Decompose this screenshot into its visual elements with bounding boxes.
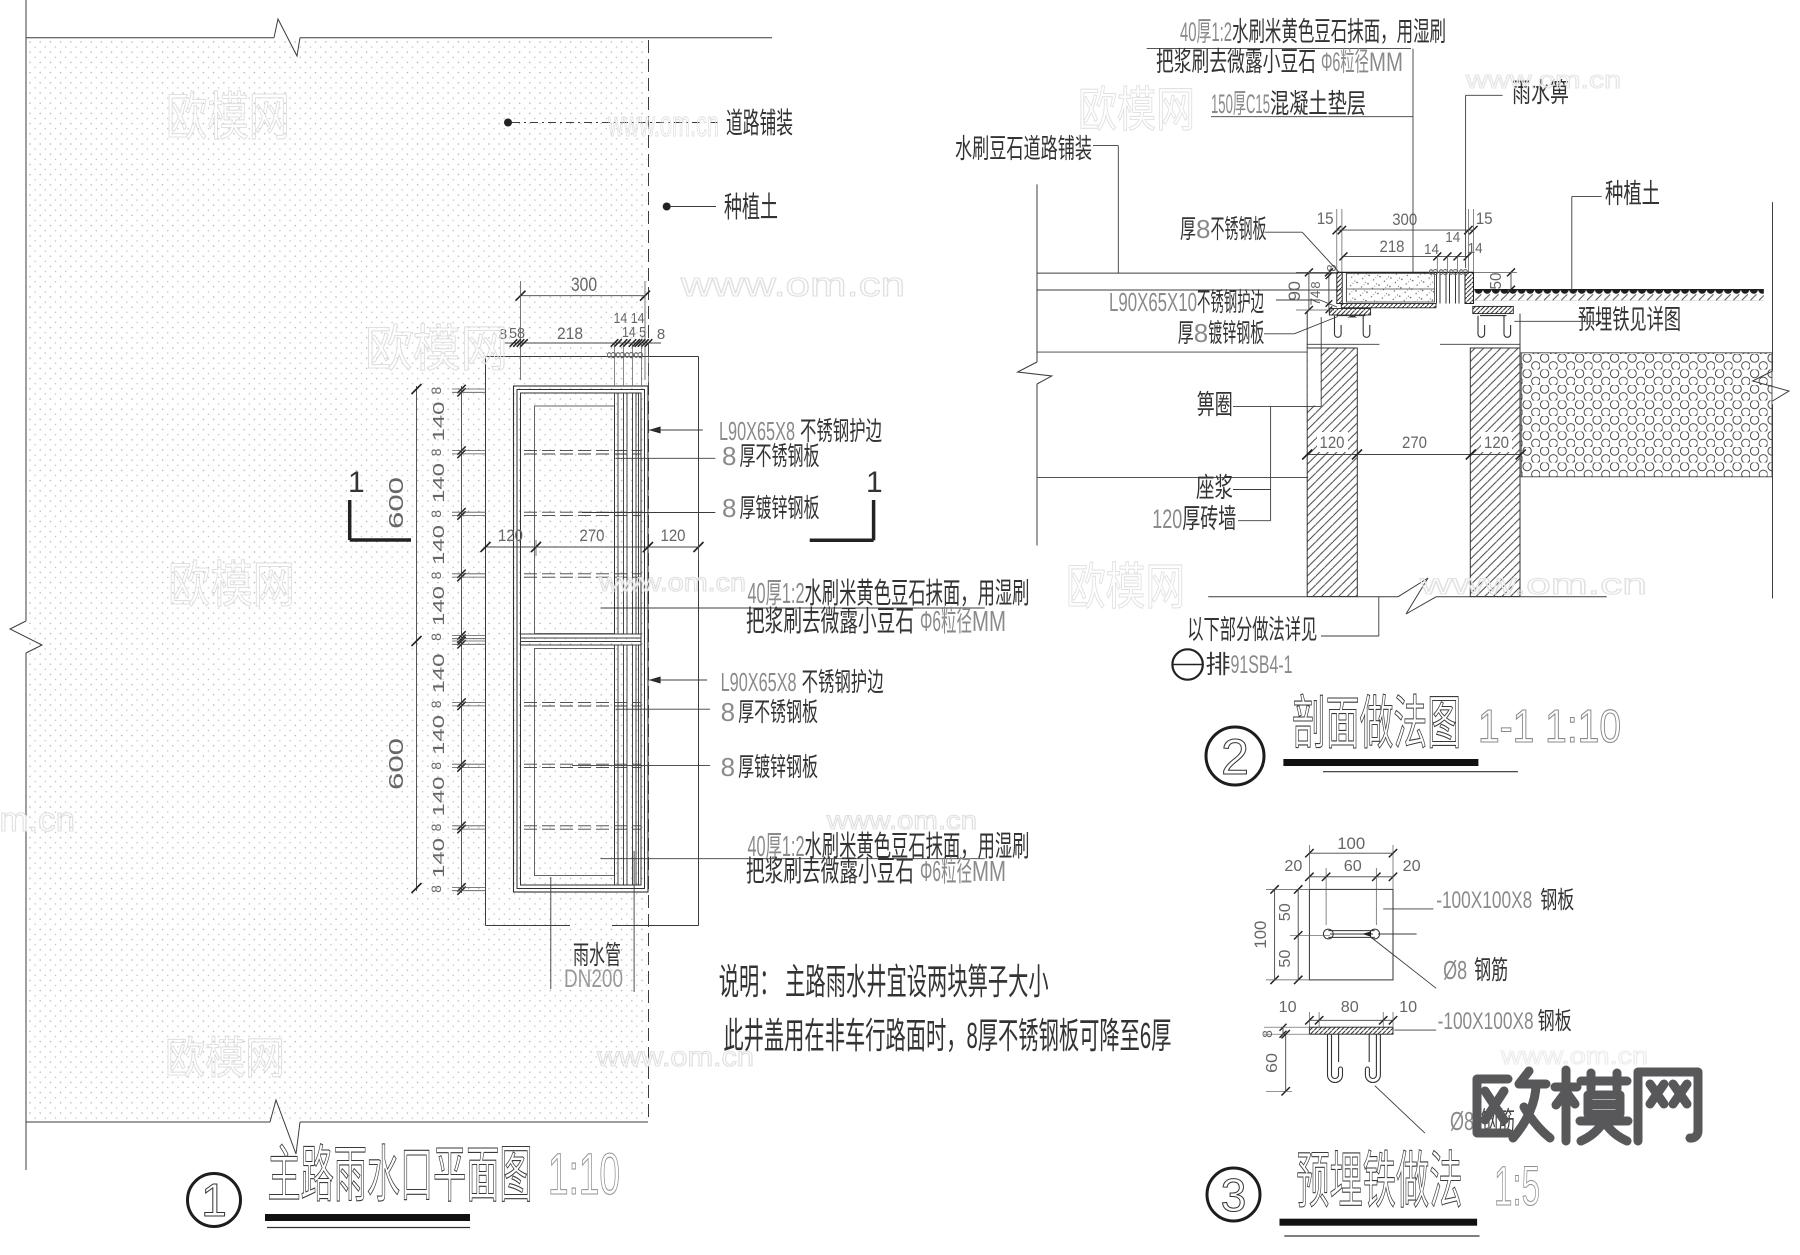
svg-text:120: 120 — [1320, 433, 1345, 452]
break on right edge — [1753, 371, 1789, 401]
brick wall right — [1470, 348, 1520, 597]
svg-text:600: 600 — [386, 477, 408, 529]
diagonal leader to phi8 label — [1372, 938, 1436, 988]
road surface line left — [1037, 272, 1337, 274]
svg-text:14: 14 — [1468, 240, 1483, 257]
chain extension marks to grate — [452, 388, 486, 390]
svg-text:-100X100X8钢板: -100X100X8钢板 — [1438, 1008, 1572, 1035]
dim chain 8/140 vertical — [461, 386, 463, 893]
svg-text:种植土: 种植土 — [1605, 179, 1660, 209]
svg-text:270: 270 — [1402, 433, 1427, 452]
grate box top edge — [1337, 271, 1474, 273]
label daolu puzhuang (road paving) — [504, 119, 512, 127]
svg-text:L90X65X10不锈钢护边: L90X65X10不锈钢护边 — [1109, 287, 1264, 317]
mortar bed level line — [1038, 477, 1309, 479]
grate bars in section — [1436, 272, 1438, 303]
detail3 plate plan square — [1309, 889, 1393, 980]
svg-text:8: 8 — [428, 386, 444, 394]
section left edge line with break — [1036, 184, 1038, 362]
svg-text:600: 600 — [386, 738, 408, 790]
svg-text:270: 270 — [580, 526, 605, 545]
svg-text:1: 1 — [866, 466, 883, 499]
svg-text:20: 20 — [1284, 858, 1302, 875]
svg-text:120厚砖墙: 120厚砖墙 — [1152, 504, 1236, 534]
planting soil stipple field — [28, 40, 647, 1120]
svg-text:厚8镀锌钢板: 厚8镀锌钢板 — [1178, 318, 1264, 348]
right seat plate — [1473, 306, 1514, 313]
crossbar hidden lines grate 2 — [524, 702, 641, 704]
svg-text:140: 140 — [431, 401, 448, 441]
svg-text:DN200: DN200 — [564, 965, 623, 993]
detail3 label plate — [1383, 908, 1433, 910]
svg-text:150厚C15混凝土垫层: 150厚C15混凝土垫层 — [1211, 89, 1366, 119]
svg-text:厚8不锈钢板: 厚8不锈钢板 — [1180, 214, 1266, 244]
break symbol on left border — [10, 621, 42, 653]
label 8 hou buxiugangban grate2 — [616, 708, 711, 710]
detail3 left dims 100 50 50 — [1274, 889, 1276, 980]
svg-text:-100X100X8钢板: -100X100X8钢板 — [1436, 887, 1574, 914]
svg-text:8: 8 — [428, 510, 444, 518]
svg-text:8: 8 — [1456, 268, 1471, 275]
svg-text:欧模网: 欧模网 — [365, 321, 508, 377]
rainwater pipe leader lines — [550, 877, 552, 989]
svg-text:剖面做法图: 剖面做法图 — [1292, 691, 1461, 756]
svg-text:8: 8 — [657, 326, 665, 343]
gravel bed (pebble fill) — [1521, 353, 1772, 477]
well outer box — [486, 356, 699, 358]
svg-text:www.om.cn: www.om.cn — [607, 103, 719, 144]
svg-text:把浆刷去微露小豆石Φ6粒径MM: 把浆刷去微露小豆石Φ6粒径MM — [746, 855, 1006, 888]
grate bars (plan, right zone) grate 2 — [614, 645, 616, 885]
svg-text:60: 60 — [1264, 1053, 1281, 1073]
svg-text:50: 50 — [1277, 903, 1294, 921]
title 1 underline — [265, 1214, 470, 1221]
svg-text:8: 8 — [428, 823, 444, 831]
dim 120/270/120 section — [1307, 454, 1521, 456]
inner opening rect grate 2 — [535, 649, 615, 876]
svg-text:140: 140 — [431, 715, 448, 755]
label zhongzhitu (planting soil) — [663, 203, 671, 211]
frame divider band between two grates — [521, 633, 642, 635]
svg-text:欧模网: 欧模网 — [1066, 559, 1185, 615]
svg-text:40厚1:2水刷米黄色豆石抹面，用湿刷: 40厚1:2水刷米黄色豆石抹面，用湿刷 — [1180, 17, 1446, 47]
label L90X65X8 grate1 — [649, 427, 661, 434]
detail3 section label plate — [1394, 1029, 1436, 1031]
label L90X65X8 grate2 — [649, 677, 661, 684]
svg-text:L90X65X8不锈钢护边: L90X65X8不锈钢护边 — [721, 667, 884, 697]
svg-text:www.om.cn: www.om.cn — [598, 567, 746, 597]
dim 300 top — [521, 295, 646, 297]
svg-text:2: 2 — [1221, 729, 1249, 785]
svg-text:140: 140 — [431, 586, 448, 626]
break symbol on top border — [274, 19, 300, 56]
svg-text:8: 8 — [428, 571, 444, 579]
planting soil surface right — [1474, 289, 1764, 291]
label 40hou mortar grate2 — [601, 858, 985, 860]
svg-text:8: 8 — [428, 448, 444, 456]
title 3 circle — [1207, 1168, 1260, 1221]
grate box: left stainless angle — [1337, 272, 1342, 303]
detail3 dim 10/80/10 — [1309, 1019, 1393, 1021]
svg-text:种植土: 种植土 — [724, 191, 778, 224]
slot (phi8 bar in plan) — [1323, 929, 1333, 939]
slot leader arrow — [1362, 931, 1371, 936]
svg-text:www.om.cn: www.om.cn — [826, 805, 977, 835]
brick wall left — [1307, 348, 1357, 597]
svg-text:排91SB4-1: 排91SB4-1 — [1206, 651, 1293, 679]
svg-text:58: 58 — [509, 325, 525, 342]
svg-text:8: 8 — [631, 351, 646, 358]
break symbol on bottom border — [270, 1100, 300, 1154]
svg-text:14: 14 — [1424, 241, 1439, 258]
left seat plate — [1329, 309, 1370, 316]
svg-text:140: 140 — [431, 525, 448, 565]
svg-text:1: 1 — [348, 466, 365, 499]
svg-text:om.cn: om.cn — [0, 801, 75, 839]
grate bars (plan, right zone) grate 1 — [614, 393, 616, 634]
label 8 hou duxin gangban grate1 — [582, 512, 715, 514]
svg-text:50: 50 — [1277, 949, 1294, 967]
svg-text:15: 15 — [1317, 209, 1334, 228]
plan bottom border line — [26, 1121, 270, 1123]
svg-text:www.om.cn: www.om.cn — [680, 266, 905, 304]
title 1 circle — [188, 1174, 241, 1227]
svg-text:74: 74 — [1307, 290, 1323, 305]
svg-text:1:10: 1:10 — [548, 1142, 620, 1207]
svg-text:218: 218 — [557, 324, 583, 343]
svg-text:www.om.cn: www.om.cn — [1419, 568, 1647, 601]
svg-text:90: 90 — [1285, 281, 1304, 301]
svg-text:50: 50 — [1488, 272, 1505, 289]
detail3 dim 100 top — [1309, 852, 1393, 854]
title 3 underline — [1280, 1219, 1478, 1226]
detail3 section: plate bar — [1309, 1027, 1393, 1034]
box bottom galvanized plate — [1341, 304, 1436, 308]
diagonal leader phi8 bottom — [1375, 1086, 1425, 1133]
svg-text:预埋铁见详图: 预埋铁见详图 — [1578, 305, 1681, 335]
svg-text:1:5: 1:5 — [1494, 1154, 1540, 1217]
svg-text:主路雨水口平面图: 主路雨水口平面图 — [268, 1141, 533, 1210]
svg-text:14: 14 — [1445, 229, 1460, 246]
svg-text:140: 140 — [431, 776, 448, 816]
detail3 dim 60 — [1285, 1034, 1287, 1091]
dim 50 right of box — [1510, 272, 1512, 289]
svg-text:水刷豆石道路铺装: 水刷豆石道路铺装 — [955, 134, 1092, 164]
dim chain 600/600 vertical — [416, 386, 418, 891]
embedded channel left — [1335, 316, 1370, 338]
detail3 U anchor channel — [1328, 1034, 1381, 1083]
label 40hou mortar grate1 — [601, 607, 985, 609]
svg-text:座浆: 座浆 — [1196, 473, 1233, 503]
embedded channel right — [1478, 316, 1511, 338]
label 8 hou buxiugangban grate1 — [615, 457, 715, 459]
svg-text:www.om.cn: www.om.cn — [1465, 67, 1621, 94]
svg-text:把浆刷去微露小豆石Φ6粒径MM: 把浆刷去微露小豆石Φ6粒径MM — [746, 605, 1006, 638]
svg-text:Ø8钢筋: Ø8钢筋 — [1443, 955, 1508, 985]
detail ref circle pai 91SB4-1 — [1172, 649, 1202, 679]
plan top border line — [26, 37, 274, 39]
svg-text:1: 1 — [201, 1174, 227, 1226]
svg-text:8: 8 — [428, 633, 444, 641]
svg-text:120: 120 — [1484, 433, 1509, 452]
svg-text:10: 10 — [1279, 999, 1297, 1016]
svg-text:3: 3 — [1221, 1169, 1247, 1221]
svg-text:14 5: 14 5 — [622, 324, 646, 341]
concrete cushion bottom line — [1037, 351, 1307, 353]
dim line 8/58/218/14s top — [505, 342, 661, 344]
label 8 hou duxin gangban grate2 — [572, 765, 710, 767]
grate seat ring edges — [1306, 311, 1308, 348]
big logo OUMOWANG bottom right — [1477, 1070, 1698, 1141]
svg-text:300: 300 — [571, 275, 597, 296]
svg-text:把浆刷去微露小豆石Φ6粒径MM: 把浆刷去微露小豆石Φ6粒径MM — [1156, 47, 1403, 77]
svg-text:1-1 1:10: 1-1 1:10 — [1478, 700, 1621, 752]
inner opening rect grate 1 — [535, 406, 615, 634]
mortar fill in grate box — [1346, 273, 1434, 302]
svg-text:道路铺装: 道路铺装 — [726, 107, 793, 140]
svg-text:8: 8 — [1308, 281, 1323, 288]
svg-text:欧模网: 欧模网 — [168, 557, 295, 613]
plan left border line — [25, 0, 27, 621]
svg-text:以下部分做法详见: 以下部分做法详见 — [1187, 615, 1317, 645]
svg-text:10: 10 — [1399, 999, 1417, 1016]
svg-text:欧模网: 欧模网 — [166, 89, 290, 147]
svg-text:箅圈: 箅圈 — [1197, 390, 1233, 420]
svg-text:20: 20 — [1403, 858, 1421, 875]
dashed soil boundary line — [648, 40, 650, 1122]
svg-text:60: 60 — [1344, 858, 1362, 875]
svg-text:预埋铁做法: 预埋铁做法 — [1296, 1147, 1462, 1216]
svg-text:此井盖用在非车行路面时，8厚不锈钢板可降至6厚: 此井盖用在非车行路面时，8厚不锈钢板可降至6厚 — [723, 1015, 1171, 1056]
svg-text:140: 140 — [431, 653, 448, 693]
svg-text:8: 8 — [428, 700, 444, 708]
svg-text:100: 100 — [1337, 834, 1365, 853]
dim 15/300/15 above box — [1337, 229, 1474, 231]
dim 90 and 8/74 left of box — [1308, 272, 1310, 310]
svg-text:欧模网: 欧模网 — [165, 1034, 285, 1083]
svg-text:80: 80 — [1341, 999, 1359, 1016]
svg-text:100: 100 — [1251, 921, 1270, 949]
svg-text:120: 120 — [498, 526, 523, 545]
detail3 dim 20/60/20 — [1309, 876, 1393, 878]
section bottom line — [1208, 596, 1398, 598]
svg-text:说明： 主路雨水井宜设两块箅子大小: 说明： 主路雨水井宜设两块箅子大小 — [719, 961, 1049, 1002]
section right edge — [1772, 202, 1774, 371]
svg-text:8: 8 — [428, 885, 444, 893]
svg-text:www.om.cn: www.om.cn — [1500, 1043, 1648, 1070]
detail3 dim 8 left — [1282, 1027, 1284, 1034]
svg-text:140: 140 — [431, 463, 448, 503]
svg-text:218: 218 — [1380, 237, 1405, 256]
grate frame nested rectangles — [514, 386, 649, 892]
svg-text:140: 140 — [431, 838, 448, 878]
dim 218/14s above box — [1343, 255, 1467, 257]
title 2 underline — [1283, 759, 1478, 766]
crossbar hidden lines grate 1 — [524, 450, 641, 452]
svg-text:欧模网: 欧模网 — [1078, 84, 1195, 137]
svg-text:www.om.cn: www.om.cn — [596, 1041, 754, 1072]
svg-text:120: 120 — [661, 526, 686, 545]
title 2 circle — [1206, 727, 1264, 785]
pavement bottom line — [1037, 289, 1342, 291]
svg-text:15: 15 — [1476, 209, 1493, 228]
dim 120 270 120 — [486, 546, 699, 548]
svg-text:8: 8 — [428, 762, 444, 770]
